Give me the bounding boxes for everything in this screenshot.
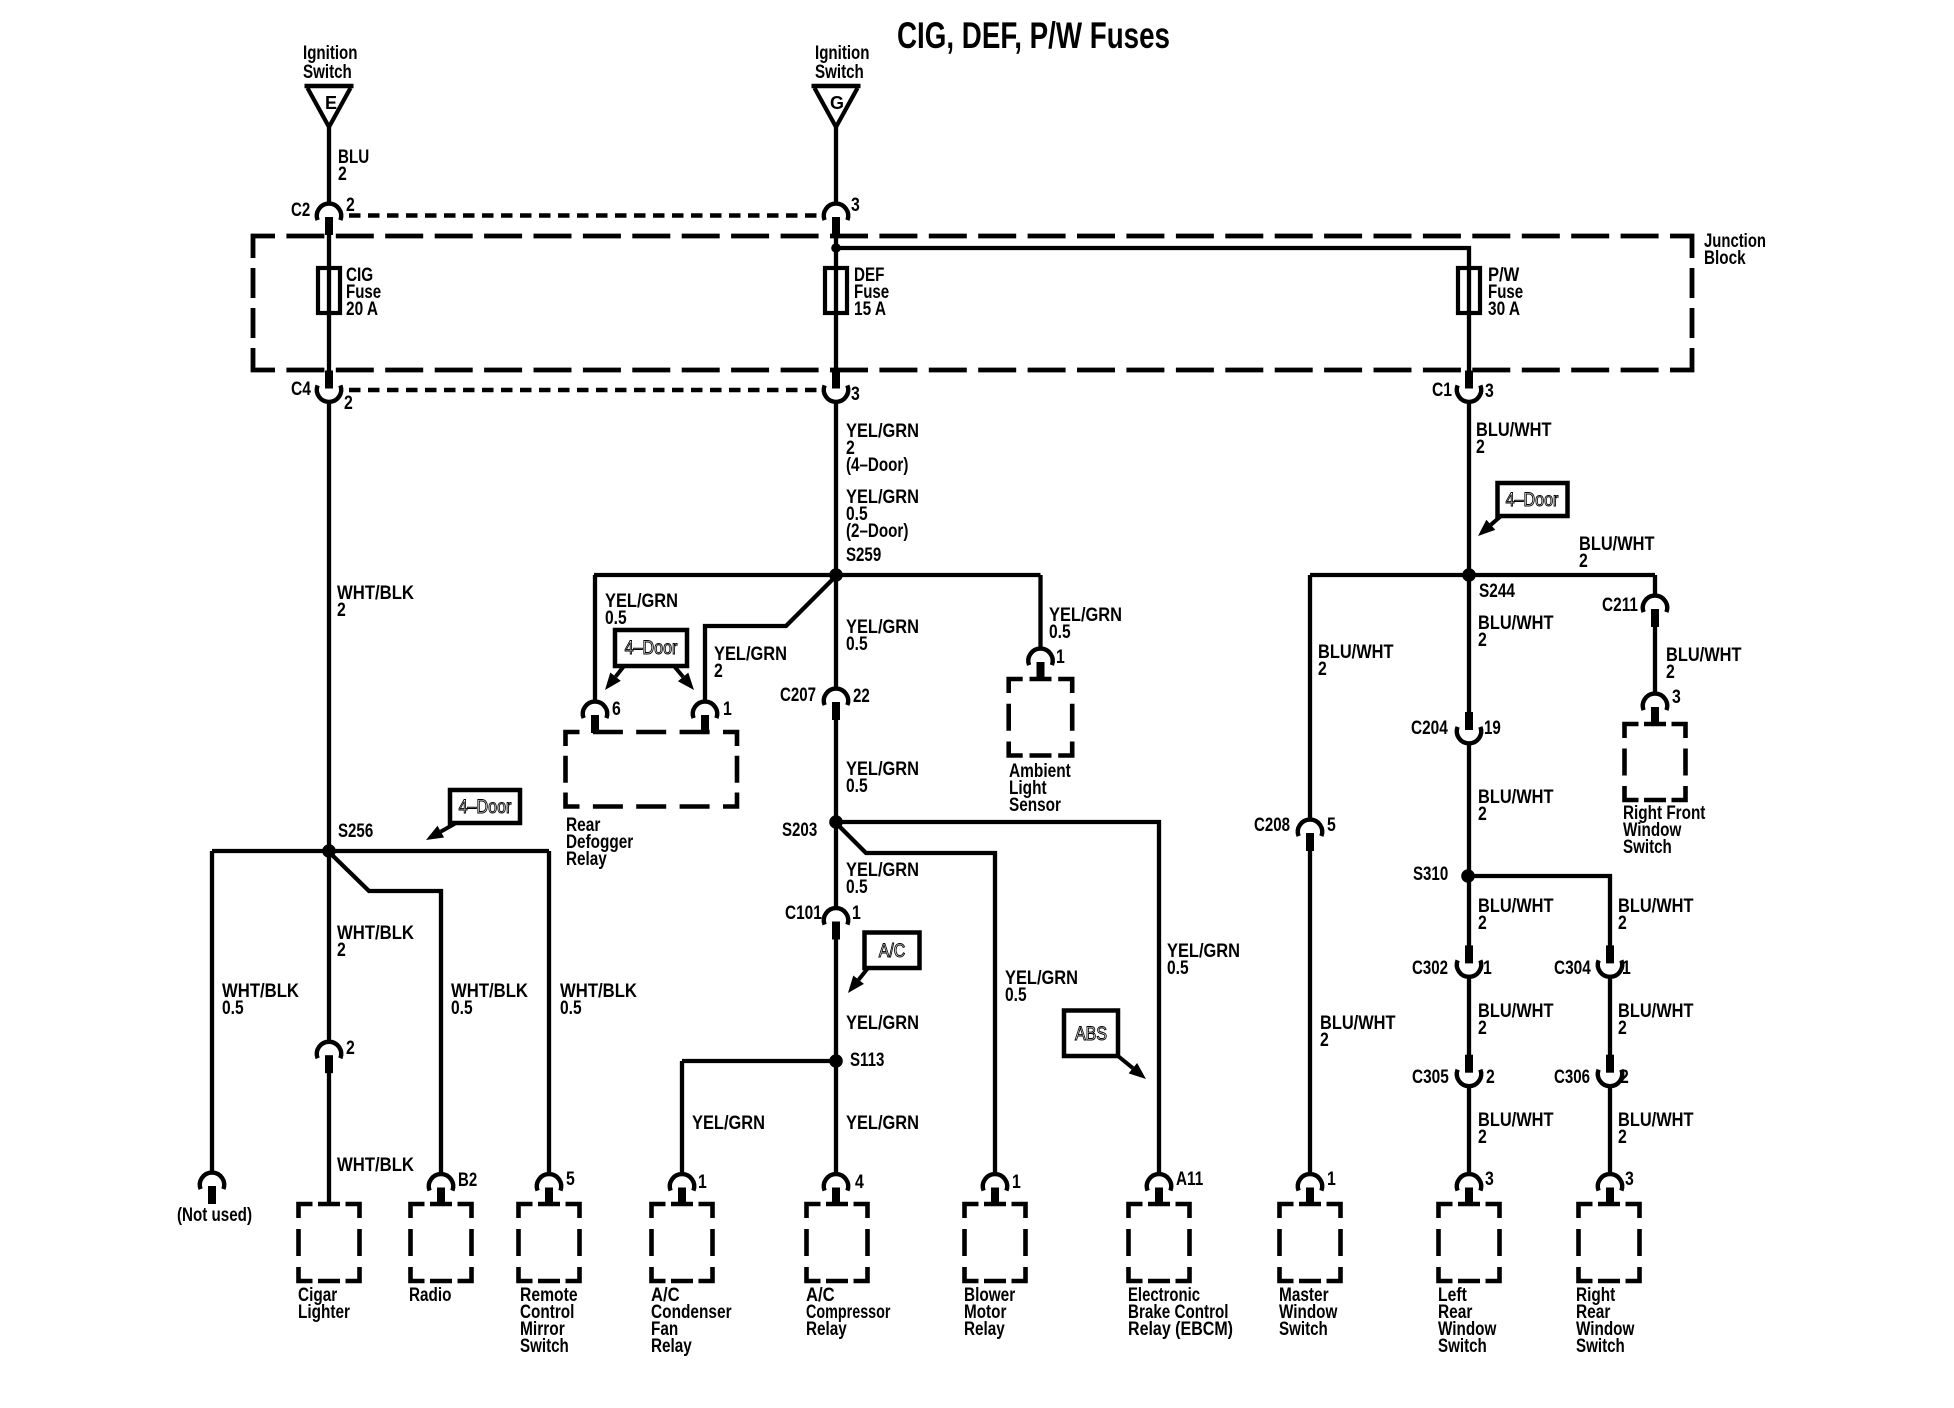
svg-text:BLU/WHT: BLU/WHT (1618, 896, 1694, 917)
svg-text:YEL/GRN: YEL/GRN (714, 644, 787, 665)
svg-text:Relay: Relay (964, 1319, 1005, 1340)
svg-text:0.5: 0.5 (560, 998, 582, 1019)
svg-text:2: 2 (1318, 659, 1327, 680)
svg-text:BLU/WHT: BLU/WHT (1478, 1110, 1554, 1131)
svg-text:B2: B2 (458, 1170, 477, 1191)
svg-text:BLU/WHT: BLU/WHT (1666, 645, 1742, 666)
svg-text:Relay: Relay (806, 1319, 847, 1340)
svg-text:C208: C208 (1254, 815, 1290, 836)
svg-text:2: 2 (1666, 662, 1675, 683)
svg-text:Radio: Radio (409, 1285, 451, 1306)
svg-text:0.5: 0.5 (222, 998, 244, 1019)
svg-text:6: 6 (612, 699, 621, 720)
svg-text:2: 2 (1476, 437, 1485, 458)
svg-text:1: 1 (1012, 1172, 1021, 1193)
svg-text:S244: S244 (1479, 581, 1515, 602)
svg-text:YEL/GRN: YEL/GRN (846, 1013, 919, 1034)
svg-text:Relay (EBCM): Relay (EBCM) (1128, 1319, 1233, 1340)
svg-text:2: 2 (346, 1038, 355, 1059)
svg-text:E: E (325, 93, 337, 113)
svg-text:BLU/WHT: BLU/WHT (1478, 613, 1554, 634)
svg-text:22: 22 (853, 686, 870, 707)
svg-text:(Not used): (Not used) (177, 1205, 252, 1226)
svg-text:2: 2 (1478, 630, 1487, 651)
svg-text:Switch: Switch (1279, 1319, 1328, 1340)
svg-text:BLU/WHT: BLU/WHT (1478, 1001, 1554, 1022)
svg-text:0.5: 0.5 (1167, 958, 1189, 979)
svg-text:0.5: 0.5 (451, 998, 473, 1019)
svg-text:A11: A11 (1176, 1169, 1204, 1190)
svg-text:2: 2 (1478, 804, 1487, 825)
svg-text:0.5: 0.5 (605, 608, 627, 629)
svg-text:2: 2 (337, 940, 346, 961)
svg-text:2: 2 (1620, 1067, 1629, 1088)
svg-text:4–Door: 4–Door (459, 797, 512, 818)
svg-text:2: 2 (1618, 1018, 1627, 1039)
svg-text:C101: C101 (785, 903, 822, 924)
svg-text:YEL/GRN: YEL/GRN (846, 421, 919, 442)
svg-text:1: 1 (1483, 958, 1492, 979)
svg-text:WHT/BLK: WHT/BLK (337, 923, 414, 944)
svg-text:1: 1 (1056, 647, 1065, 668)
svg-text:5: 5 (1327, 815, 1336, 836)
svg-text:0.5: 0.5 (846, 776, 868, 797)
svg-text:Switch: Switch (1623, 837, 1672, 858)
svg-text:0.5: 0.5 (846, 877, 868, 898)
svg-text:BLU/WHT: BLU/WHT (1320, 1013, 1396, 1034)
svg-text:3: 3 (1485, 381, 1494, 402)
svg-text:C204: C204 (1411, 718, 1448, 739)
svg-text:S203: S203 (782, 820, 817, 841)
svg-text:19: 19 (1484, 718, 1501, 739)
svg-text:2: 2 (346, 195, 355, 216)
svg-text:C207: C207 (780, 685, 816, 706)
svg-text:2: 2 (1579, 551, 1588, 572)
svg-text:BLU/WHT: BLU/WHT (1318, 642, 1394, 663)
svg-text:C306: C306 (1554, 1067, 1590, 1088)
svg-text:S310: S310 (1413, 864, 1448, 885)
svg-text:Switch: Switch (815, 62, 864, 83)
svg-text:WHT/BLK: WHT/BLK (337, 1155, 414, 1176)
svg-text:YEL/GRN: YEL/GRN (846, 1113, 919, 1134)
svg-text:BLU/WHT: BLU/WHT (1478, 787, 1554, 808)
svg-text:0.5: 0.5 (846, 634, 868, 655)
svg-text:2: 2 (344, 393, 353, 414)
svg-text:4–Door: 4–Door (625, 638, 678, 659)
svg-text:3: 3 (1625, 1169, 1634, 1190)
svg-text:C211: C211 (1602, 595, 1638, 616)
svg-text:S113: S113 (850, 1050, 884, 1071)
svg-text:Switch: Switch (303, 62, 352, 83)
svg-text:1: 1 (1622, 958, 1631, 979)
svg-text:BLU/WHT: BLU/WHT (1476, 420, 1552, 441)
svg-text:2: 2 (338, 164, 347, 185)
svg-text:2: 2 (1478, 1127, 1487, 1148)
svg-text:Relay: Relay (651, 1336, 692, 1357)
svg-text:C302: C302 (1412, 958, 1448, 979)
svg-text:2: 2 (337, 600, 346, 621)
svg-text:3: 3 (851, 384, 860, 405)
svg-text:5: 5 (566, 1169, 575, 1190)
svg-text:2: 2 (1618, 1127, 1627, 1148)
svg-text:2: 2 (714, 661, 723, 682)
svg-text:C1: C1 (1432, 380, 1452, 401)
svg-text:2: 2 (1618, 913, 1627, 934)
svg-text:C2: C2 (291, 200, 310, 221)
svg-text:WHT/BLK: WHT/BLK (337, 583, 414, 604)
svg-text:1: 1 (852, 903, 861, 924)
svg-text:1: 1 (1327, 1169, 1336, 1190)
svg-text:BLU/WHT: BLU/WHT (1579, 534, 1655, 555)
svg-text:4: 4 (855, 1172, 864, 1193)
svg-text:C305: C305 (1412, 1067, 1449, 1088)
svg-text:(4–Door): (4–Door) (846, 455, 908, 476)
svg-text:15 A: 15 A (854, 299, 886, 320)
svg-text:C4: C4 (291, 379, 311, 400)
svg-text:1: 1 (698, 1172, 707, 1193)
svg-text:Lighter: Lighter (298, 1302, 350, 1323)
svg-text:Relay: Relay (566, 849, 607, 870)
svg-text:0.5: 0.5 (1049, 622, 1071, 643)
svg-text:0.5: 0.5 (1005, 985, 1027, 1006)
svg-text:3: 3 (1485, 1169, 1494, 1190)
svg-text:Block: Block (1704, 248, 1746, 269)
svg-text:ABS: ABS (1075, 1024, 1107, 1045)
svg-text:Ignition: Ignition (303, 43, 358, 64)
svg-text:30 A: 30 A (1488, 299, 1520, 320)
svg-text:3: 3 (851, 195, 860, 216)
svg-text:Ignition: Ignition (815, 43, 870, 64)
svg-text:CIG, DEF, P/W Fuses: CIG, DEF, P/W Fuses (897, 15, 1170, 56)
svg-text:Switch: Switch (1438, 1336, 1487, 1357)
svg-text:Switch: Switch (520, 1336, 569, 1357)
svg-text:YEL/GRN: YEL/GRN (692, 1113, 765, 1134)
svg-text:S259: S259 (846, 545, 881, 566)
svg-text:BLU/WHT: BLU/WHT (1618, 1001, 1694, 1022)
svg-text:4–Door: 4–Door (1506, 490, 1559, 511)
svg-text:2: 2 (1320, 1030, 1329, 1051)
svg-text:2: 2 (1486, 1067, 1495, 1088)
svg-text:3: 3 (1672, 687, 1681, 708)
svg-text:A/C: A/C (879, 941, 905, 962)
svg-text:20 A: 20 A (346, 299, 378, 320)
svg-text:G: G (830, 93, 844, 113)
svg-text:2: 2 (1478, 913, 1487, 934)
svg-text:Switch: Switch (1576, 1336, 1625, 1357)
svg-text:2: 2 (1478, 1018, 1487, 1039)
svg-text:Sensor: Sensor (1009, 795, 1061, 816)
svg-text:C304: C304 (1554, 958, 1591, 979)
svg-text:(2–Door): (2–Door) (846, 521, 908, 542)
svg-text:BLU/WHT: BLU/WHT (1478, 896, 1554, 917)
svg-text:BLU/WHT: BLU/WHT (1618, 1110, 1694, 1131)
svg-text:1: 1 (723, 699, 732, 720)
svg-text:S256: S256 (338, 821, 373, 842)
